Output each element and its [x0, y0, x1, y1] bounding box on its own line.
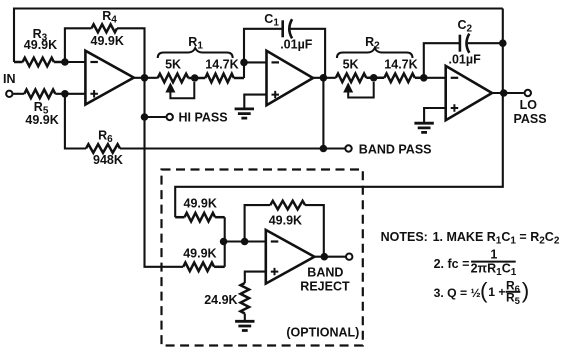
label (OPTIONAL) [286, 326, 359, 340]
svg-text:R2: R2 [365, 35, 380, 52]
svg-text:REJECT: REJECT [300, 280, 350, 294]
note 3 fraction numerator R6 [506, 279, 520, 296]
brace for R1 [158, 48, 233, 58]
wire: U1 non-inverting node down to R6 [65, 94, 86, 149]
svg-text:C2: C2 [458, 18, 473, 35]
resistor R1b 14.7K [188, 74, 244, 83]
label R4 [102, 9, 117, 26]
resistor R4 49.9K [92, 24, 118, 32]
label LO [520, 98, 538, 112]
label C1 [264, 12, 279, 29]
ground at U2 [235, 109, 254, 118]
label R8 value 49.9K [183, 247, 216, 261]
svg-text:R4: R4 [102, 9, 117, 26]
capacitor C2 .01uF [460, 34, 469, 53]
terminal: BAND PASS output [345, 145, 351, 151]
node: notch summing junction (feedback) [241, 238, 249, 246]
wire: right riser from top run down to lo-pass node [502, 9, 504, 94]
wire: 24.9K to ground [244, 314, 246, 322]
note 1 text [433, 230, 560, 247]
note 3 inner text [488, 285, 505, 299]
ground at U3 [414, 123, 433, 132]
note 3 close paren [522, 278, 530, 303]
op-amp U3 [446, 66, 492, 120]
label R3 value 49.9K [24, 38, 57, 52]
note 2 fraction bar [471, 261, 516, 263]
note 3 open paren [480, 278, 488, 303]
label IN [3, 72, 16, 86]
label R6 value 948K [93, 153, 123, 167]
wire: U1 inverting node up to R4 [65, 28, 92, 62]
op-amp U2 [267, 51, 314, 105]
terminal: LO PASS output [525, 90, 531, 96]
svg-text:2. fc =: 2. fc = [434, 257, 470, 271]
svg-text:C1: C1 [264, 12, 279, 29]
svg-text:(: ( [480, 278, 488, 303]
wire: R8 up to summing node [224, 242, 226, 267]
svg-text:3. Q = ½: 3. Q = ½ [434, 286, 481, 300]
label BAND [307, 266, 343, 280]
svg-text:.01µF: .01µF [280, 38, 313, 52]
wire: C2 left branch [424, 43, 460, 78]
svg-text:NOTES:: NOTES: [381, 230, 428, 244]
wire: IN terminal to R5 [13, 93, 24, 95]
wiper arrow of R2 pot [344, 82, 374, 98]
label NOTES heading [381, 230, 428, 244]
wire: R9 down to U4 output [305, 205, 324, 257]
wire: R5 to U1 non-inverting input [55, 93, 86, 95]
svg-text:LO: LO [520, 98, 538, 112]
svg-text:49.9K: 49.9K [91, 34, 124, 48]
note 3 fraction denominator R5 [506, 291, 521, 308]
node: R1 pot wiper junction [191, 74, 199, 82]
resistor R7 49.9K (from lo-pass) [175, 213, 225, 222]
node: band-pass tap [320, 145, 328, 153]
label C2 [458, 18, 473, 35]
label R2 [365, 35, 380, 52]
svg-text:1 +: 1 + [488, 285, 505, 299]
svg-text:49.9K: 49.9K [269, 214, 302, 228]
brace for R2 [337, 48, 413, 58]
svg-text:.01µF: .01µF [449, 53, 482, 67]
svg-text:BAND PASS: BAND PASS [359, 142, 432, 156]
wire: R3 junction to U1 inverting input [65, 61, 86, 63]
svg-text:): ) [522, 278, 530, 303]
resistor R5 49.9K [24, 90, 55, 99]
wire: band-pass node down to band-pass row [322, 78, 324, 149]
node: notch summing junction (left) [220, 238, 228, 246]
label HI PASS [179, 111, 228, 125]
label BAND PASS [359, 142, 432, 156]
wire: lo-pass feedback (left riser and top run) [14, 9, 503, 63]
note 3 text [434, 286, 481, 300]
svg-text:49.9K: 49.9K [183, 247, 216, 261]
wire: U3 non-inverting input to ground [424, 108, 446, 123]
wire: U2 output to R2 [313, 77, 336, 79]
svg-text:5K: 5K [343, 57, 359, 71]
wire: R6 to band-pass node [120, 147, 323, 149]
wire: summing node to U4 inverting input [224, 240, 267, 242]
node: hi-pass output tap [141, 113, 149, 121]
wire: lo-pass node down and left into notch section [175, 93, 503, 217]
wire: C1 left branch [244, 29, 283, 63]
label 5K (R2) [343, 57, 359, 71]
op-amp U1 [85, 51, 133, 105]
node: U3 inverting input junction [420, 74, 428, 82]
resistor R10 24.9K [241, 283, 250, 314]
node: op-amp U1 inverting input junction [61, 58, 69, 66]
svg-text:PASS: PASS [514, 112, 547, 126]
svg-text:24.9K: 24.9K [204, 293, 237, 307]
svg-text:14.7K: 14.7K [384, 57, 417, 71]
svg-text:R6: R6 [98, 129, 113, 146]
potentiometer R2a 5K [336, 74, 367, 83]
wiper arrow of R1 pot [166, 82, 194, 98]
svg-text:948K: 948K [93, 153, 123, 167]
op-amp U4 [266, 230, 315, 284]
wire: U2 non-inverting input to ground [244, 95, 267, 109]
svg-text:49.9K: 49.9K [24, 38, 57, 52]
note 2 fraction denominator [471, 262, 517, 279]
resistor R8 49.9K (from hi-pass) [183, 263, 225, 272]
wire: feedback riser up from summing node [245, 205, 271, 241]
note 3 fraction bar [506, 291, 521, 293]
svg-text:1: 1 [490, 248, 497, 262]
wire: U4 output to BAND REJECT terminal [314, 256, 345, 258]
wire: C2 right branch [468, 42, 503, 44]
label REJECT [300, 280, 350, 294]
note 2 text [434, 257, 470, 271]
label 14.7K (R2) [384, 57, 417, 71]
node: U1 non-inverting input junction [61, 90, 69, 98]
svg-text:49.9K: 49.9K [25, 113, 58, 127]
svg-text:BAND: BAND [307, 266, 343, 280]
svg-text:49.9K: 49.9K [184, 197, 217, 211]
wire: U3 output to LO PASS terminal [492, 92, 524, 94]
svg-text:1. MAKE R1C1 = R2C2: 1. MAKE R1C1 = R2C2 [433, 230, 560, 247]
node: C2 to right riser junction [499, 39, 507, 47]
resistor R2b 14.7K [366, 74, 424, 83]
svg-text:2πR1C1: 2πR1C1 [471, 262, 517, 279]
label R9 value 49.9K [269, 214, 302, 228]
label PASS [514, 112, 547, 126]
dashed box (optional section) [162, 170, 363, 346]
terminal: BAND REJECT output [346, 254, 352, 260]
wire: hi-pass tap to terminal [145, 116, 166, 118]
wire: band-pass tap to terminal [323, 147, 344, 149]
capacitor C1 .01uF [283, 19, 292, 38]
wire: R2 to U3 inverting input [424, 77, 446, 79]
label C2 value .01uF [449, 53, 482, 67]
node: band-reject output node [321, 253, 329, 261]
label 14.7K [205, 57, 238, 71]
svg-text:14.7K: 14.7K [205, 57, 238, 71]
potentiometer R1a 5K [158, 74, 189, 83]
ground at R10 [235, 321, 254, 330]
label 5K [165, 57, 181, 71]
wire: U1 output to R1 [134, 77, 158, 79]
label R3 [33, 27, 48, 44]
wire: R4 to U1 output riser [117, 28, 145, 78]
resistor R9 49.9K (U4 feedback) [270, 201, 305, 210]
label R5 value 49.9K [25, 113, 58, 127]
label R1 [188, 35, 203, 52]
svg-text:IN: IN [3, 72, 16, 86]
svg-text:(OPTIONAL): (OPTIONAL) [286, 326, 359, 340]
wire: U4 non-inverting input to 24.9K [245, 272, 266, 283]
label C1 value .01uF [280, 38, 313, 52]
node: U2 inverting input junction [240, 59, 248, 67]
svg-text:HI PASS: HI PASS [179, 111, 228, 125]
wire: R1 up to U2 inverting input [244, 62, 267, 78]
svg-text:5K: 5K [165, 57, 181, 71]
label R6 [98, 129, 113, 146]
label R4 value 49.9K [91, 34, 124, 48]
label R10 value 24.9K [204, 293, 237, 307]
wire: C1 right branch down to U2 output [291, 29, 326, 78]
terminal: HI PASS output [167, 114, 173, 120]
wire: R7 down to summing node [224, 217, 226, 241]
note 2 fraction numerator [490, 248, 497, 262]
node: R2 pot wiper junction [370, 74, 378, 82]
resistor R6 948K [86, 144, 120, 153]
resistor R3 49.9K [14, 58, 65, 67]
wire: hi-pass node down to notch section [145, 78, 184, 267]
terminal: IN input [6, 91, 12, 97]
node: U2 output / band-pass node [320, 74, 328, 82]
label R7 value 49.9K [184, 197, 217, 211]
node: U1 output / hi-pass node [141, 74, 149, 82]
label R5 [34, 100, 49, 117]
node: lo-pass output node [500, 89, 508, 97]
